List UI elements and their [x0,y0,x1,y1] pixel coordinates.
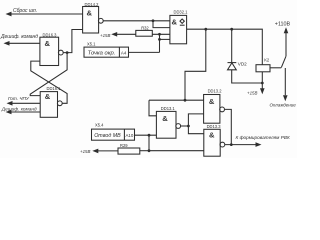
svg-text:&: & [209,97,215,106]
wire: DD13.3 output to RVK arrow [225,144,257,146]
svg-text:DD13.1: DD13.1 [161,106,176,111]
node junction X5.4 net [148,134,151,137]
wire: Гот. ЧПУ to DD16.1 input 2 [12,102,41,104]
connector box Отвод МВ / А10 [92,129,135,140]
svg-text:&: & [45,92,51,101]
svg-text:Дешиф. команд: Дешиф. команд [1,106,37,111]
node junction latch Q [66,51,69,54]
node junction coil bottom [261,82,264,85]
svg-text:R32: R32 [141,26,149,31]
wire: down to DD13.3 input 1 [188,126,203,134]
wire: VD2 anode to coil bottom [232,70,263,83]
resistor R32 [136,26,153,37]
svg-text:Дешиф. команд: Дешиф. команд [0,34,38,40]
wire: Дешиф. команд to DD16.3 input 1 [9,42,40,44]
svg-text:Точка окр.: Точка окр. [88,51,116,57]
relay contact K2 blade [281,56,286,67]
wire: X5.4 net down to R29 rail [148,135,150,151]
node: Дешиф. команд input arrow (lower) [1,106,37,114]
svg-text:DD13.2: DD13.2 [208,89,223,94]
node junction DD13 input net [184,99,187,102]
svg-text:Сброс шп.: Сброс шп. [13,8,37,14]
svg-text:+110В: +110В [275,22,291,28]
svg-text:+15В: +15В [80,149,90,154]
node: +15V supply arrow (R29) [80,149,98,155]
logic gate DD13.1 [156,106,180,138]
wire: Дешиф. команд to DD16.1 input 3 [11,111,41,113]
node: К формирователям РВК output arrow [236,135,290,147]
node: Дешиф. команд output arrow (upper) [0,34,38,46]
node: +110V supply arrow [275,22,291,34]
svg-text:Охлаждение: Охлаждение [270,102,297,107]
node: Сброс шп. input arrow [6,8,38,16]
svg-text:DD16.3: DD16.3 [43,32,58,37]
svg-text:&: & [172,18,178,27]
wire: A4 box to pull-up net [129,51,160,53]
wire: latch cross coupling Q down [30,53,67,96]
wire: Сброс шп. to DD14.2 input 1 [11,13,83,15]
wire: DD14.2 output to DD32.1 input 1 [103,20,170,22]
connector box Точка окр. / А4 [84,47,129,57]
wire: +110V down to contact K2.1 [285,32,287,56]
svg-text:А4: А4 [121,50,127,55]
svg-text:DD13.3: DD13.3 [207,124,222,129]
node: +15V arrow below coil [247,88,265,95]
relay coil K2 [256,57,281,71]
node junction output to VD2 column [230,28,233,31]
svg-text:R29: R29 [120,143,128,148]
node junction DD13.1 output [187,125,190,128]
wire: R29 to +15V [98,150,118,152]
wire: jog to DD32.1 input 2 [153,21,170,28]
svg-text:А10: А10 [126,133,134,138]
diode VD2 [228,62,248,70]
wire: R32 to DD32.1 input 3 [152,33,170,35]
node junction R32 net lower [158,38,161,41]
svg-text:X5.4: X5.4 [95,123,104,128]
svg-text:DD32.1: DD32.1 [174,10,189,15]
svg-text:&: & [87,8,93,17]
node: +15V supply arrow (R32) [100,32,117,38]
wire: up to DD13.2 input 2 [188,114,203,126]
svg-text:+15В: +15В [100,33,110,38]
node junction R32 net upper [158,33,161,36]
wire: rail to DD13.3 input 2 [149,150,204,152]
wire: pull-up net down to X5.1 contact [159,34,161,52]
logic gate DD16.3 [40,32,63,65]
wire: coil bottom to +15V [261,72,263,90]
wire: jog down to DD13.1 input 1 [149,100,156,116]
svg-text:&: & [162,114,168,123]
wire: +15V to R32 [117,33,137,35]
node junction on DD14.2 output [152,19,155,22]
svg-text:&: & [209,130,215,139]
wire: A10 box to DD13.1 input 2 [135,134,157,136]
logic gate DD16.1 [40,86,62,117]
wire: latch cross coupling Q- up [31,61,67,103]
svg-text:VD2: VD2 [238,62,247,67]
logic gate DD14.2 [83,2,104,33]
svg-text:Отвод МВ: Отвод МВ [94,133,121,139]
svg-text:&: & [45,39,51,48]
svg-text:X5.1: X5.1 [87,42,96,47]
wire: down to diode VD2 [231,29,233,62]
svg-text:К формирователям РВК: К формирователям РВК [236,135,290,140]
svg-text:+15В: +15В [247,90,257,95]
logic gate DD13.2 [204,89,225,124]
wire: DD16.3 output to DD14.2 input 2 [63,30,82,53]
logic gate DD13.3 [204,124,225,156]
wire: DD32.1 output rail to relay K2 [187,29,263,64]
wire: DD13.1 output to feedback column [181,125,189,127]
node: Гот. ЧПУ input arrow [7,96,30,106]
wire: output column down to DD13 stage [185,29,206,100]
node junction R29 rail [148,149,151,152]
node junction output to logic column [204,28,207,31]
wire: to DD32.1 input 4 [160,38,170,40]
svg-text:K2: K2 [264,57,270,62]
svg-text:DD16.1: DD16.1 [47,86,62,91]
node junction outputs RVK [230,143,233,146]
logic gate DD32.1 (open collector) [170,10,188,44]
resistor R29 [118,143,149,154]
svg-text:Гот. ЧПУ: Гот. ЧПУ [8,96,30,101]
wire: contact to Охлаждение output [284,68,286,95]
node: Охлаждение output arrow [270,95,297,107]
wire: DD13.2 output down to output node [225,109,231,144]
wire: net to DD13.2 input 1 [149,99,204,101]
